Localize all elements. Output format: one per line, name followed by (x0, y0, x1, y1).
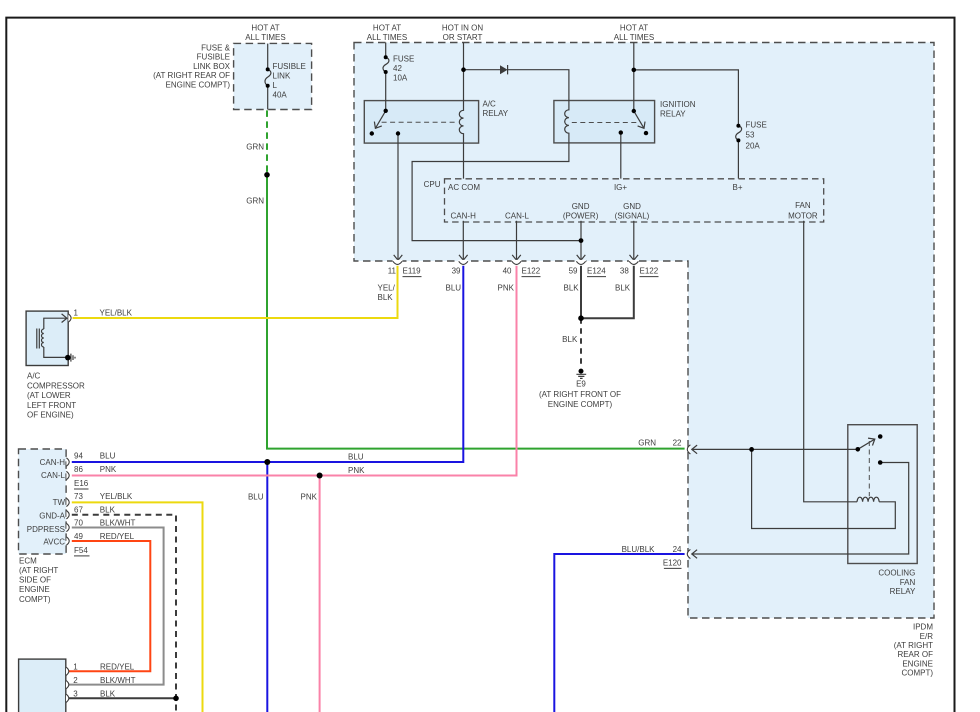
svg-text:2: 2 (73, 676, 78, 685)
svg-text:FAN: FAN (900, 578, 916, 587)
svg-text:E/R: E/R (920, 632, 934, 641)
svg-text:YEL/BLK: YEL/BLK (100, 492, 133, 501)
svg-text:BLK: BLK (100, 689, 116, 698)
svg-text:ALL TIMES: ALL TIMES (614, 33, 654, 42)
svg-text:(AT RIGHT REAR OF: (AT RIGHT REAR OF (153, 71, 230, 80)
svg-text:BLK/WHT: BLK/WHT (100, 518, 136, 527)
svg-text:E119: E119 (403, 266, 422, 275)
svg-text:B+: B+ (732, 183, 742, 192)
svg-text:67: 67 (74, 506, 83, 515)
svg-text:FUSE: FUSE (746, 121, 767, 130)
svg-text:GRN: GRN (246, 196, 264, 205)
svg-text:COMPT): COMPT) (901, 669, 933, 678)
svg-text:SIDE OF: SIDE OF (19, 576, 51, 585)
svg-text:40: 40 (503, 266, 512, 275)
svg-text:MOTOR: MOTOR (788, 212, 818, 221)
svg-text:40A: 40A (273, 91, 288, 100)
svg-text:PNK: PNK (498, 284, 515, 293)
svg-text:RELAY: RELAY (660, 110, 686, 119)
svg-text:AVCC: AVCC (43, 538, 65, 547)
svg-text:E122: E122 (640, 266, 659, 275)
svg-text:(POWER): (POWER) (563, 212, 599, 221)
svg-text:BLK/WHT: BLK/WHT (100, 676, 136, 685)
svg-text:94: 94 (74, 452, 83, 461)
svg-text:GND-A: GND-A (39, 511, 65, 520)
svg-text:PDPRESS: PDPRESS (27, 525, 65, 534)
svg-text:FUSIBLE: FUSIBLE (273, 62, 306, 71)
svg-text:FUSE: FUSE (393, 54, 414, 63)
svg-text:ALL TIMES: ALL TIMES (245, 33, 285, 42)
svg-text:YEL/BLK: YEL/BLK (100, 309, 133, 318)
svg-text:BLK: BLK (100, 506, 116, 515)
svg-text:11: 11 (388, 266, 397, 275)
svg-text:IG+: IG+ (614, 183, 627, 192)
svg-text:IPDM: IPDM (913, 623, 933, 632)
svg-text:ENGINE: ENGINE (902, 659, 933, 668)
svg-text:YEL/: YEL/ (378, 284, 396, 293)
svg-text:BLU: BLU (348, 453, 364, 462)
svg-text:BLK: BLK (564, 284, 580, 293)
svg-text:L: L (273, 81, 278, 90)
svg-text:73: 73 (74, 492, 83, 501)
svg-text:ECM: ECM (19, 556, 37, 565)
svg-text:GRN: GRN (638, 439, 656, 448)
svg-text:A/C: A/C (27, 372, 41, 381)
svg-text:FAN: FAN (795, 201, 811, 210)
svg-text:TW: TW (53, 498, 66, 507)
svg-text:FUSE &: FUSE & (201, 44, 231, 53)
svg-text:ENGINE: ENGINE (19, 585, 50, 594)
svg-text:CAN-L: CAN-L (505, 212, 530, 221)
svg-text:(AT LOWER: (AT LOWER (27, 391, 71, 400)
svg-text:E124: E124 (587, 266, 606, 275)
svg-text:BLU: BLU (446, 284, 462, 293)
svg-text:GND: GND (572, 202, 590, 211)
svg-text:ALL TIMES: ALL TIMES (367, 33, 407, 42)
svg-text:F54: F54 (74, 546, 88, 555)
svg-text:3: 3 (73, 689, 78, 698)
svg-text:10A: 10A (393, 74, 408, 83)
svg-text:42: 42 (393, 64, 402, 73)
svg-text:OR START: OR START (443, 33, 483, 42)
svg-text:PNK: PNK (301, 493, 318, 502)
svg-text:BLU/BLK: BLU/BLK (622, 545, 656, 554)
svg-text:86: 86 (74, 465, 83, 474)
svg-text:OF ENGINE): OF ENGINE) (27, 411, 74, 420)
svg-text:COOLING: COOLING (878, 569, 915, 578)
svg-text:E122: E122 (522, 266, 541, 275)
svg-text:E9: E9 (576, 379, 586, 388)
svg-text:E120: E120 (663, 558, 682, 567)
svg-text:59: 59 (569, 266, 578, 275)
svg-text:BLK: BLK (378, 293, 394, 302)
svg-text:E16: E16 (74, 479, 89, 488)
svg-text:BLU: BLU (100, 452, 116, 461)
svg-text:REAR OF: REAR OF (897, 650, 933, 659)
svg-text:39: 39 (452, 266, 461, 275)
svg-text:A/C: A/C (483, 100, 497, 109)
svg-text:BLK: BLK (615, 284, 631, 293)
svg-text:RED/YEL: RED/YEL (100, 532, 135, 541)
svg-text:IGNITION: IGNITION (660, 100, 696, 109)
svg-text:HOT AT: HOT AT (251, 24, 279, 33)
svg-text:1: 1 (74, 309, 79, 318)
svg-text:COMPT): COMPT) (19, 595, 51, 604)
svg-text:ENGINE COMPT): ENGINE COMPT) (166, 80, 231, 89)
svg-text:RELAY: RELAY (890, 587, 916, 596)
svg-text:RELAY: RELAY (483, 109, 509, 118)
svg-text:ENGINE COMPT): ENGINE COMPT) (548, 400, 613, 409)
svg-text:LINK BOX: LINK BOX (193, 62, 231, 71)
svg-text:(SIGNAL): (SIGNAL) (615, 212, 650, 221)
svg-text:HOT IN ON: HOT IN ON (442, 24, 483, 33)
svg-text:BLK: BLK (562, 335, 578, 344)
svg-text:1: 1 (73, 662, 78, 671)
svg-text:53: 53 (746, 130, 755, 139)
svg-text:20A: 20A (746, 141, 761, 150)
svg-text:CAN-L: CAN-L (41, 471, 66, 480)
svg-text:LINK: LINK (273, 72, 291, 81)
svg-text:PNK: PNK (348, 466, 365, 475)
svg-text:BLU: BLU (248, 493, 264, 502)
svg-text:HOT AT: HOT AT (373, 24, 401, 33)
svg-text:(AT RIGHT FRONT OF: (AT RIGHT FRONT OF (539, 390, 621, 399)
svg-text:CAN-H: CAN-H (40, 458, 66, 467)
svg-text:LEFT FRONT: LEFT FRONT (27, 401, 76, 410)
svg-text:24: 24 (673, 545, 682, 554)
svg-text:GRN: GRN (246, 142, 264, 151)
svg-text:PNK: PNK (100, 465, 117, 474)
svg-text:(AT RIGHT: (AT RIGHT (894, 641, 933, 650)
svg-text:RED/YEL: RED/YEL (100, 662, 135, 671)
svg-text:(AT RIGHT: (AT RIGHT (19, 566, 58, 575)
svg-text:AC COM: AC COM (448, 183, 480, 192)
svg-text:HOT AT: HOT AT (620, 24, 648, 33)
svg-text:70: 70 (74, 518, 83, 527)
svg-text:COMPRESSOR: COMPRESSOR (27, 381, 85, 390)
svg-text:38: 38 (620, 266, 629, 275)
svg-text:FUSIBLE: FUSIBLE (197, 53, 230, 62)
svg-text:CAN-H: CAN-H (451, 212, 477, 221)
svg-text:22: 22 (673, 439, 682, 448)
svg-text:49: 49 (74, 532, 83, 541)
svg-text:GND: GND (623, 202, 641, 211)
svg-text:CPU: CPU (424, 180, 441, 189)
